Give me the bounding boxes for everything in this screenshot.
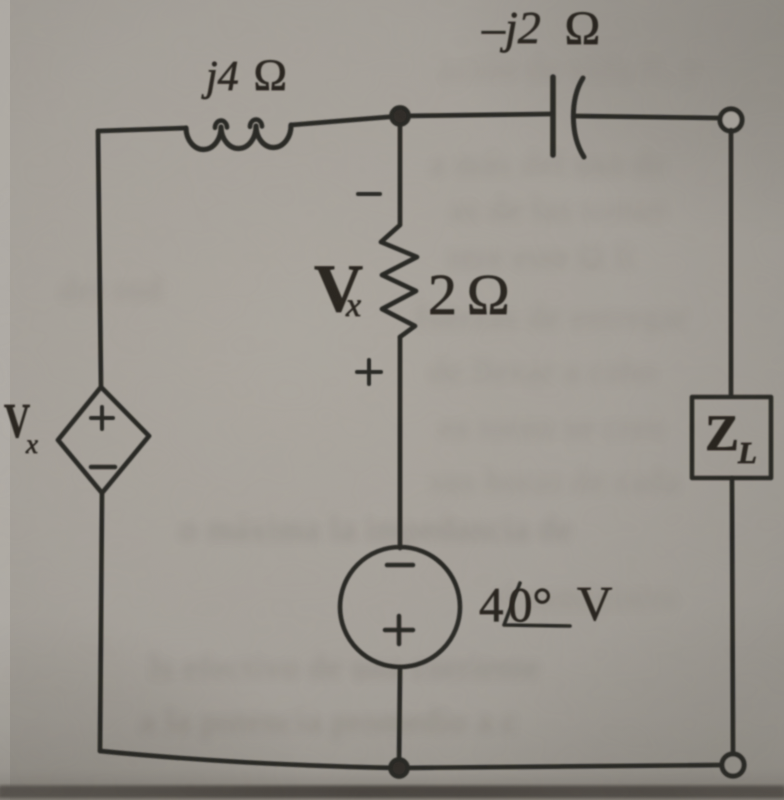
wire: right vertical lower <box>732 478 733 753</box>
minus inside circle source <box>387 563 413 568</box>
svg-text:x: x <box>25 429 38 459</box>
resistor R1 (2 ohm) zigzag <box>381 225 417 337</box>
wire: middle vertical upper (node to resistor) <box>398 116 403 224</box>
dependent source diamond <box>58 387 149 493</box>
svg-text:x: x <box>345 287 361 324</box>
svg-text:o máxima la impedancia de: o máxima la impedancia de <box>180 512 573 548</box>
dark rule near bottom edge <box>0 786 784 797</box>
bottom dark band <box>0 715 784 800</box>
bleed-through text from reverse page <box>60 52 701 740</box>
capacitor C1 right plate (curved) <box>573 78 584 157</box>
svg-text:Ω: Ω <box>466 262 511 327</box>
svg-text:sus horas de cada: sus horas de cada <box>430 464 680 500</box>
impedance ZL box <box>692 397 771 478</box>
inductor L1 (j4 ohm) <box>186 125 291 149</box>
svg-text:ación de vida R, y: ación de vida R, y <box>440 52 701 88</box>
angle symbol of 4/0 V label <box>504 583 570 626</box>
left light photo edge <box>0 0 10 800</box>
svg-text:V: V <box>577 576 612 631</box>
wire: source to bottom node <box>399 667 400 768</box>
wire: resistor to source <box>398 337 403 548</box>
svg-text:2: 2 <box>428 262 457 327</box>
minus above resistor <box>358 192 380 196</box>
wire: bottom <box>100 751 722 768</box>
wire: left vertical <box>98 131 101 387</box>
svg-text:j4: j4 <box>201 54 239 100</box>
svg-text:der rod: der rod <box>60 272 163 308</box>
svg-text:a la potencia promedio a c: a la potencia promedio a c <box>140 704 518 740</box>
plus below resistor <box>357 360 381 384</box>
svg-text:L: L <box>737 435 757 470</box>
svg-text:4: 4 <box>479 577 504 632</box>
node: top middle (solid) <box>392 108 409 125</box>
wire: capacitor to top-right terminal <box>575 116 718 118</box>
svg-text:Z: Z <box>705 406 739 462</box>
node: bottom middle (solid) <box>391 760 408 777</box>
wire: right vertical upper <box>729 130 734 396</box>
svg-text:ls efectivo de una corriente: ls efectivo de una corriente <box>150 650 541 686</box>
svg-text:es torno se creo: es torno se creo <box>440 410 665 446</box>
wire: top-left corner to inductor <box>98 128 186 131</box>
plus inside circle source <box>385 616 413 644</box>
capacitor C1 (-j2 ohm) left plate <box>550 77 556 155</box>
terminal: bottom right (open) <box>722 754 744 776</box>
wire: inductor to top node <box>291 116 400 125</box>
wire: node to capacitor <box>400 114 550 116</box>
svg-text:Ω: Ω <box>564 2 601 55</box>
svg-text:as de las tomas: as de las tomas <box>450 192 667 228</box>
svg-text:de llevar a cabo: de llevar a cabo <box>430 354 657 390</box>
corner shading <box>450 0 784 240</box>
wire: diamond to bottom-left corner <box>100 493 102 751</box>
svg-text:0°: 0° <box>508 577 552 632</box>
svg-text:–j2: –j2 <box>481 2 541 53</box>
terminal: top right (open) <box>720 109 742 131</box>
plus inside diamond <box>91 407 113 429</box>
minus inside diamond <box>91 465 115 470</box>
source V1 circle (4 angle 0 V) <box>340 547 460 667</box>
svg-text:a más del uso de: a más del uso de <box>430 147 667 183</box>
svg-text:Ω: Ω <box>253 50 288 100</box>
